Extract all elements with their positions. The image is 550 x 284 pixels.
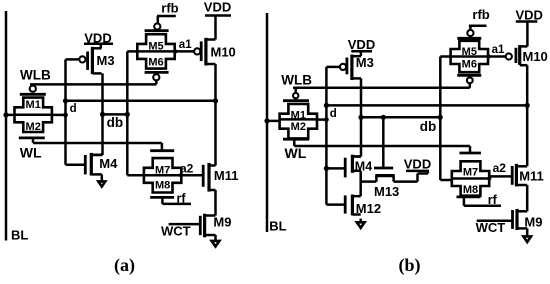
node d junction dot figure b (324, 103, 329, 108)
svg-text:M11: M11 (214, 168, 239, 183)
wire WL rail turn down into M7/M8 top gate figure b (469, 146, 472, 152)
svg-text:WCT: WCT (161, 223, 191, 238)
svg-text:M5: M5 (462, 46, 477, 58)
gate bar top of M7/M8 figure b (459, 152, 481, 155)
svg-text:M10: M10 (523, 49, 548, 64)
wire rf step from M7/M8 bottom gate figure b (463, 197, 466, 206)
wire WLB rail step up to M5/M6 bottom bubble (155, 80, 158, 84)
ground symbol below M12 figure b (357, 222, 365, 228)
ground symbol below M4 (98, 181, 105, 186)
gate bar bottom of M5/M6 figure b (457, 74, 481, 77)
transistor M3 figure b (PMOS) (350, 55, 353, 80)
gate bar bottom of M1/M2 (WL) (19, 136, 45, 139)
wire WLB rail step up to M5/M6 bottom bubble figure b (469, 83, 472, 87)
transistor M9 (NMOS) (203, 214, 206, 238)
node dot at M5/M6 right vertex figure b (486, 54, 490, 58)
wire VDD bar top right figure b (516, 20, 538, 23)
wire M7/M8 right terminal to M11 gate figure b (488, 176, 491, 178)
gate bar bottom of M1/M2 figure b (283, 138, 309, 141)
svg-text:M9: M9 (524, 215, 542, 230)
wire WLB rail figure b (293, 87, 470, 90)
svg-text:rfb: rfb (472, 7, 489, 22)
svg-text:M2: M2 (26, 121, 41, 133)
wire BL to M1/M2 left terminal (6, 114, 15, 117)
transmission gate M5/M6 (137, 34, 174, 68)
wire node d vertical (64, 59, 67, 164)
svg-text:rf: rf (177, 191, 187, 205)
bubble on M3 gate figure b (340, 64, 346, 70)
svg-text:BL: BL (269, 218, 286, 233)
figure b: bitline BL vertical wire (266, 13, 269, 232)
svg-text:M1: M1 (291, 109, 306, 121)
wire M11 source down to M9 drain (214, 190, 217, 216)
wire M5/M6 left terminal horizontal (127, 50, 137, 53)
bubble on M5/M6 bottom gate figure b (467, 77, 473, 83)
wire rf step from M7/M8 bottom gate (161, 197, 164, 204)
wire M5/M6 left terminal horizontal figure b (440, 55, 450, 58)
transistor M11 (NMOS) (207, 163, 210, 192)
node junction dot at M4 gate branch figure b (324, 166, 329, 171)
gate bar top of M5/M6 figure b (457, 37, 481, 40)
wire M10 drain down to M11 drain (214, 64, 217, 166)
wire rfb bar (157, 15, 176, 18)
wire rfb bar figure b (469, 24, 487, 27)
svg-text:M10: M10 (211, 44, 236, 59)
svg-text:M4: M4 (355, 159, 372, 173)
transistor M10 (PMOS) (204, 38, 207, 66)
wire VDD bar top right (205, 14, 231, 17)
wire riser to VDD path figure b (416, 174, 419, 182)
wire M1/M2 right terminal to node d vertical figure b (317, 118, 326, 121)
node dot at M7/M8 right vertex figure b (487, 176, 491, 180)
svg-text:WL: WL (20, 144, 42, 160)
wire riser to VDD bar figure b (427, 171, 430, 174)
svg-text:M1: M1 (26, 99, 41, 111)
svg-text:M9: M9 (213, 214, 231, 229)
transistor M13 figure b (horizontal): channel (375, 174, 394, 177)
transistor M4 figure b (NMOS) (351, 155, 354, 173)
gate bar bottom of M5/M6 (145, 71, 169, 74)
wire VDD drop to M3 source figure b (360, 51, 363, 56)
wire node d vertical figure b (325, 67, 328, 205)
svg-text:a2: a2 (493, 161, 507, 175)
wire to M7/M8 left terminal (127, 174, 144, 177)
wire BL to M1/M2 left terminal figure b (267, 120, 280, 123)
svg-text:d: d (330, 108, 337, 120)
gate bar bottom of M7/M8 figure b (457, 195, 481, 198)
bubble on M10 gate (194, 48, 200, 54)
wire rfb drop to M5/M6 top gate bubble (157, 16, 160, 23)
wire M4 drain stub (93, 154, 103, 157)
transmission gate M7/M8 (144, 158, 181, 192)
wire horizontal VDD path figure b (418, 172, 428, 175)
wire M12 source to ground figure b (359, 219, 362, 223)
svg-text:(a): (a) (114, 255, 135, 276)
transmission gate M7/M8 figure b (452, 161, 489, 195)
svg-text:M6: M6 (462, 58, 477, 70)
gate bar top of M7/M8 (WL) (150, 149, 174, 152)
wire WL step from M1/M2 bottom gate figure b (293, 139, 296, 146)
svg-text:db: db (107, 115, 124, 130)
svg-text:M6: M6 (148, 57, 163, 69)
bubble on M5/M6 bottom gate (WLB) (153, 74, 159, 80)
gate bar bottom of M7/M8 (rf) (150, 196, 174, 199)
node dot at M5/M6 right vertex (173, 49, 177, 53)
svg-text:WCT: WCT (476, 220, 506, 235)
node db junction dot on db vertical (100, 112, 105, 117)
svg-text:VDD: VDD (204, 0, 231, 15)
node junction dot where M1/M2 joins node d line (63, 113, 68, 118)
wire VDD bar above M3 (84, 43, 113, 46)
bubble on M10 gate figure b (506, 53, 512, 59)
wire WL rail (33, 142, 162, 145)
bubble on M5/M6 top gate figure b (467, 30, 473, 36)
wire VDD drop to M3 source (100, 44, 103, 49)
transistor M12 figure b (NMOS) (351, 195, 354, 216)
wire M12 gate from node d vertical figure b (326, 203, 345, 206)
wire VDD drop to M10 source figure b (526, 22, 529, 47)
wire M9 source to ground figure b (526, 228, 529, 236)
svg-text:M3: M3 (97, 53, 115, 68)
wire VDD drop to M10 source (214, 16, 217, 40)
wire db vertical figure b (360, 78, 363, 156)
wire WL rail turn down into M7/M8 top gate (161, 143, 164, 149)
bubble on M1/M2 top gate (WLB) (30, 86, 36, 92)
svg-text:M12: M12 (356, 201, 381, 216)
wire branch to M13 left terminal figure b (361, 180, 377, 183)
svg-text:rf: rf (488, 193, 498, 207)
gate bar of M13 figure b (374, 167, 393, 170)
wire M7/M8 right terminal to M11 gate (181, 174, 203, 177)
node junction dot where M1/M2 joins node d line figure b (324, 117, 329, 122)
svg-text:(b): (b) (399, 255, 421, 276)
wire M4 gate from node d vertical figure b (326, 167, 345, 170)
wire WL step from M1/M2 bottom gate bar (32, 138, 35, 143)
wire M5/M6 right terminal to a1 figure b (488, 55, 506, 58)
wire rfb drop to M5/M6 top gate bubble figure b (469, 26, 472, 30)
svg-text:d: d (70, 103, 77, 115)
wire M10 drain down to M11 drain figure b (526, 65, 529, 166)
node junction dot on M5/M6 left line figure b (438, 115, 443, 120)
gate bar top of M1/M2 (20, 93, 46, 96)
wire to M7/M8 left terminal figure b (440, 179, 452, 182)
wire M4 source to ground (101, 174, 104, 181)
transistor M4 (NMOS) (90, 153, 93, 176)
wire node d rail to M10 drain figure b (326, 104, 527, 107)
wire M1/M2 right terminal to node d vertical (52, 114, 66, 117)
svg-text:M8: M8 (155, 180, 170, 192)
node junction dot on M5/M6 left line (125, 112, 130, 117)
gate bar top of M1/M2 figure b (283, 99, 309, 102)
svg-text:M11: M11 (519, 169, 544, 184)
node junction dot at d rail right end figure b (525, 103, 530, 108)
svg-text:M2: M2 (291, 121, 306, 133)
wire bubble stub to WLB rail figure b (294, 88, 297, 93)
wire M4 gate from node d vertical (66, 163, 86, 166)
transmission gate M1/M2 figure b (280, 104, 317, 138)
bubble on M3 gate (79, 56, 85, 62)
gate bar top of M5/M6 (145, 29, 169, 32)
wire M5/M6 left terminal vertical figure b (439, 57, 442, 181)
wire M13 left stub figure b (375, 176, 378, 182)
svg-text:a1: a1 (492, 44, 505, 56)
wire WL rail figure b (294, 145, 470, 148)
wire VDD bar middle figure b (406, 170, 429, 173)
wire db vertical from M3 drain to M4 drain (101, 73, 104, 155)
svg-text:WLB: WLB (20, 67, 51, 82)
wire WCT to M9 gate figure b (477, 219, 513, 222)
wire db cross-link segment (103, 113, 128, 116)
svg-text:VDD: VDD (404, 157, 431, 172)
wire db cross-link segment figure b (361, 116, 440, 119)
wire WCT to M9 gate (169, 223, 201, 226)
svg-text:a2: a2 (180, 161, 194, 175)
transistor M11 figure b (NMOS) (515, 164, 518, 187)
wire VDD bar above M3 figure b (351, 50, 372, 53)
wire M13 right stub figure b (392, 176, 395, 182)
wire M4 source to M12 drain figure b (359, 171, 362, 196)
node d junction dot (63, 98, 68, 103)
bubble on M5/M6 top gate (rfb) (154, 23, 160, 29)
wire node d rail to M10 drain (66, 100, 216, 103)
svg-text:WLB: WLB (281, 72, 312, 87)
wire M13 right terminal run figure b (394, 180, 418, 183)
transistor M9 figure b (NMOS) (515, 209, 518, 230)
node db junction dot figure b (358, 115, 363, 120)
svg-text:db: db (420, 119, 437, 134)
wire M9 source to ground (214, 235, 217, 241)
svg-text:a1: a1 (179, 39, 192, 51)
svg-text:rfb: rfb (161, 1, 178, 16)
svg-text:BL: BL (11, 227, 28, 242)
svg-text:M4: M4 (99, 156, 118, 171)
wire M4 drain stub figure b (352, 155, 361, 158)
node dot at M7/M8 right vertex (179, 173, 183, 177)
node junction dot at M13 gate stub figure b (381, 115, 386, 120)
node junction dot at d rail right end (213, 98, 218, 103)
ground symbol below M9 figure b (523, 236, 531, 242)
wire M13 gate stub up to db figure b (382, 117, 385, 168)
figure a: bitline BL vertical wire (5, 11, 8, 241)
transistor M10 figure b (PMOS) (518, 45, 521, 65)
svg-text:VDD: VDD (348, 37, 375, 52)
wire M3 gate from node d figure b (326, 66, 339, 69)
wire M5/M6 left terminal vertical (126, 51, 129, 175)
wire M3 gate from node d (66, 58, 80, 61)
wire rf bar figure b (464, 205, 501, 208)
transistor M3 (PMOS) (91, 47, 94, 74)
transmission gate M1/M2 (15, 98, 52, 132)
wire M5/M6 right terminal to a1 (175, 50, 194, 53)
wire WLB rail (30, 83, 156, 86)
transmission gate M5/M6 figure b (451, 41, 488, 72)
svg-text:M5: M5 (148, 40, 163, 52)
ground symbol below M9 (212, 241, 220, 247)
node junction dot on BL figure b (264, 118, 269, 123)
wire rf bar (162, 203, 191, 206)
svg-text:M7: M7 (463, 167, 478, 179)
bubble on M1/M2 top gate figure b (293, 93, 298, 98)
node junction dot on BL at M1/M2 (3, 112, 8, 117)
svg-text:M13: M13 (374, 184, 399, 199)
svg-text:M7: M7 (155, 165, 170, 177)
wire M11 source down to M9 drain figure b (526, 185, 529, 211)
svg-text:M8: M8 (463, 184, 478, 196)
svg-text:M3: M3 (356, 55, 374, 70)
